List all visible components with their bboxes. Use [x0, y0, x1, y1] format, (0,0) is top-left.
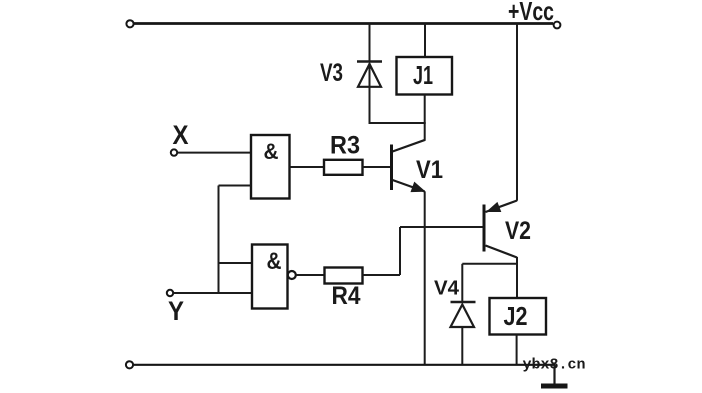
wire to V2 base	[400, 226, 483, 228]
wire R3 to V1 base	[363, 166, 391, 168]
svg-text:R4: R4	[332, 282, 361, 310]
node A joining wire V3 to J1	[369, 122, 426, 124]
svg-text:R3: R3	[330, 132, 360, 160]
wire diode V3 anode down to node A	[369, 63, 371, 123]
svg-text:V4: V4	[434, 278, 460, 300]
wire node B horizontal to diode V4	[462, 263, 517, 265]
terminal top-left	[126, 20, 133, 27]
wire U1 lower input	[219, 185, 252, 187]
svg-text:&: &	[267, 248, 282, 275]
wire J2 bottom lead	[516, 335, 518, 365]
wire V1 emitter down to bottom rail	[424, 192, 426, 365]
diode V3	[357, 62, 382, 87]
wire node A down to V1 collector	[424, 123, 426, 141]
svg-text:X: X	[173, 120, 189, 150]
svg-text:J1: J1	[413, 60, 433, 90]
wire R4 output right	[363, 274, 401, 276]
bottom rail wire	[134, 364, 556, 366]
svg-text:ybx8.cn: ybx8.cn	[523, 357, 586, 374]
svg-text:J2: J2	[504, 301, 528, 331]
wire U1 output to R3	[290, 166, 325, 168]
wire R4 elbow up	[399, 227, 401, 275]
svg-text:V2: V2	[505, 217, 531, 245]
wire V4 anode down to bottom rail	[461, 327, 463, 364]
terminal bottom-left	[126, 361, 133, 368]
wire X to gate U1	[178, 152, 252, 154]
wire U2 output to R4	[296, 274, 325, 276]
wire U2 upper input	[219, 262, 253, 264]
svg-text:Y: Y	[168, 296, 184, 326]
wire relay J1 bottom lead	[424, 95, 426, 124]
wire rail to diode V3	[369, 24, 371, 63]
diode V4	[451, 302, 476, 327]
svg-text:+Vcc: +Vcc	[508, 0, 554, 26]
wire V4 cathode lead	[461, 264, 463, 302]
wire V2 collector down to J2	[516, 257, 518, 298]
transistor V2	[484, 201, 517, 258]
relay coil J1	[397, 57, 453, 95]
svg-text:V1: V1	[416, 156, 443, 184]
power rail +Vcc top wire	[134, 22, 553, 25]
AND gate U1	[251, 135, 290, 199]
terminal top-right	[554, 22, 561, 29]
ground	[541, 365, 568, 389]
resistor R4	[325, 268, 363, 284]
NAND gate U2	[252, 245, 288, 309]
wire rail to relay J1	[424, 24, 426, 58]
wire rail to V2 emitter	[516, 24, 518, 201]
relay coil J2	[490, 298, 547, 335]
terminal input X	[171, 149, 177, 155]
transistor V1	[392, 140, 426, 192]
U2 output inverter bubble	[288, 271, 296, 279]
resistor R3	[324, 160, 363, 175]
wire Y to gate U2	[174, 292, 253, 294]
wire vertical interconnect from Y	[218, 186, 220, 294]
terminal input Y	[167, 290, 173, 296]
svg-text:V3: V3	[320, 59, 343, 87]
svg-text:&: &	[264, 139, 279, 164]
